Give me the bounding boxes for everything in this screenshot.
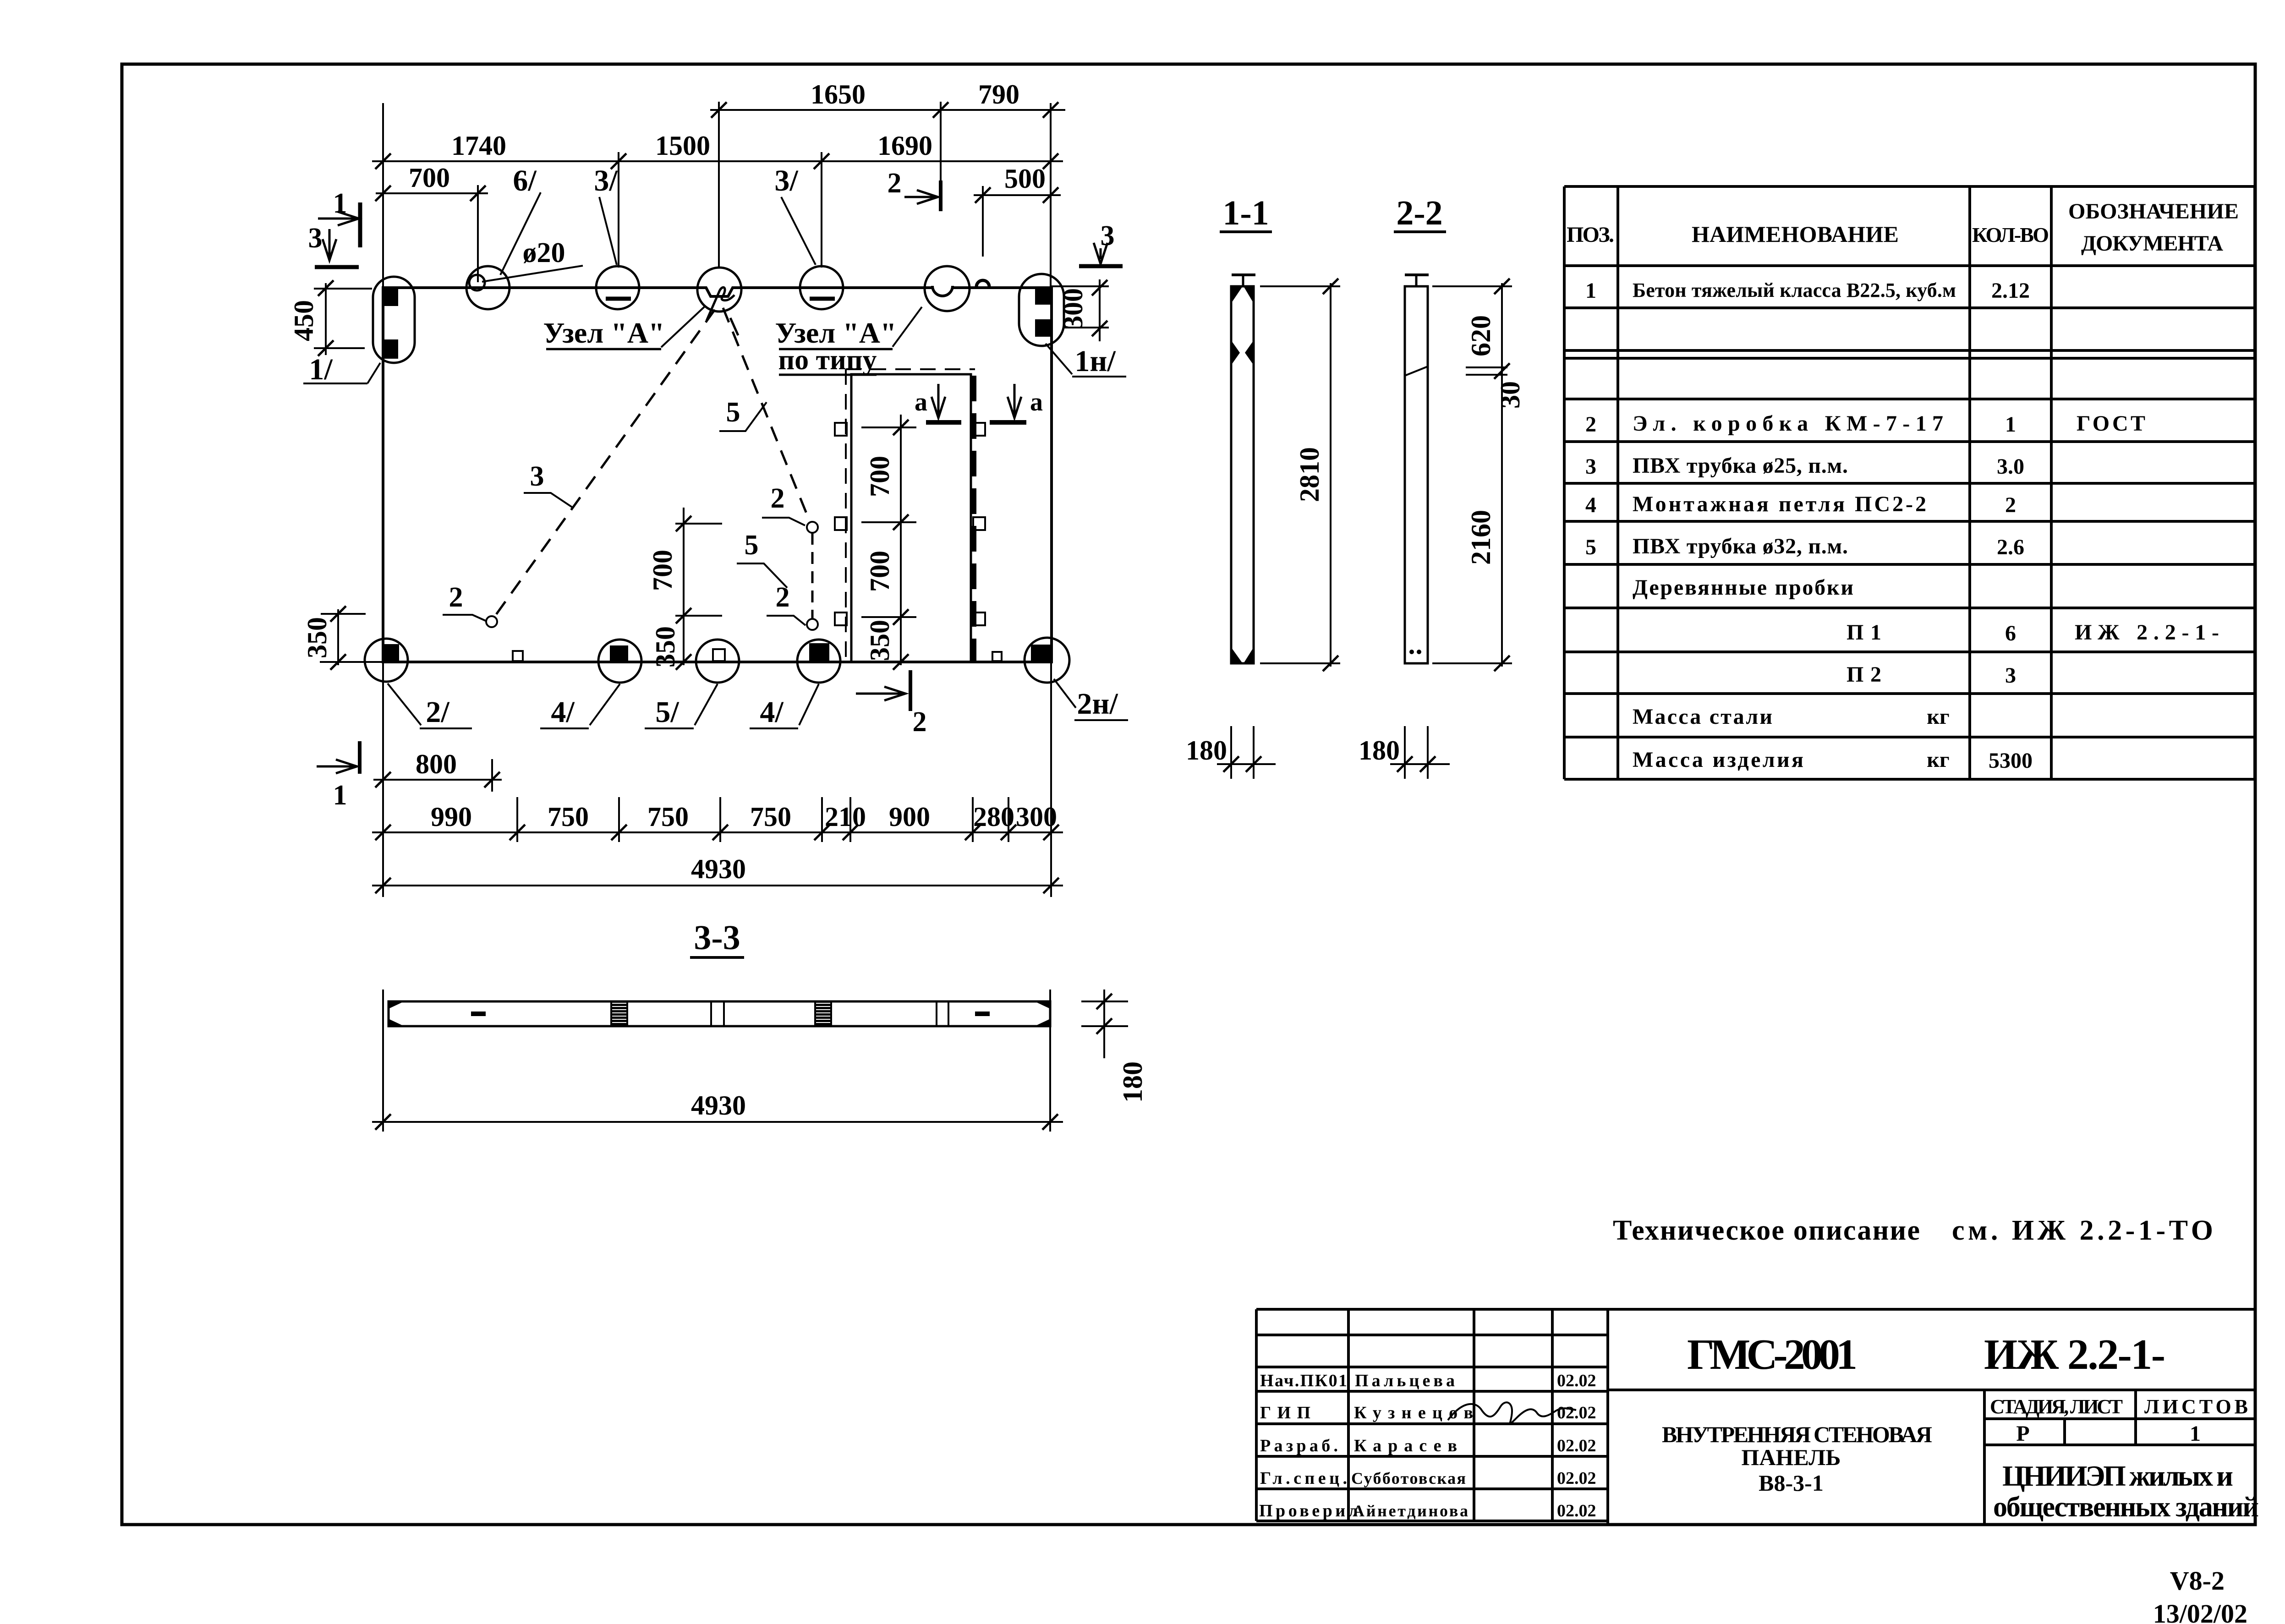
bottom detail circle 4 first bbox=[598, 640, 641, 683]
svg-text:5300: 5300 bbox=[1989, 749, 2033, 773]
svg-text:700: 700 bbox=[865, 551, 895, 592]
svg-text:2: 2 bbox=[888, 168, 902, 199]
left embedded channel detail 1 bbox=[373, 277, 415, 363]
svg-text:2: 2 bbox=[2005, 493, 2016, 517]
svg-text:750: 750 bbox=[548, 802, 589, 832]
svg-text:5: 5 bbox=[745, 530, 759, 561]
svg-text:2н/: 2н/ bbox=[1077, 687, 1118, 721]
svg-text:2: 2 bbox=[449, 582, 463, 613]
section 1-1 column bbox=[1231, 286, 1254, 663]
bottom detail circle 2 left corner bbox=[365, 639, 408, 682]
svg-text:V8-2: V8-2 bbox=[2170, 1566, 2225, 1596]
svg-text:КОЛ-ВО: КОЛ-ВО bbox=[1972, 223, 2049, 246]
bottom dim 800 bbox=[373, 779, 502, 781]
svg-text:ГМС-2001: ГМС-2001 bbox=[1687, 1331, 1858, 1378]
svg-text:Нач.ПК01: Нач.ПК01 bbox=[1260, 1371, 1347, 1390]
svg-text:5: 5 bbox=[1585, 535, 1596, 559]
svg-text:3-3: 3-3 bbox=[694, 919, 740, 957]
svg-text:Р: Р bbox=[2016, 1422, 2029, 1446]
dim 500 top right bbox=[974, 194, 1061, 196]
extension lines top bbox=[382, 103, 384, 288]
svg-text:Айнетдинова: Айнетдинова bbox=[1353, 1502, 1468, 1520]
dashed tube vertical at door bbox=[811, 533, 814, 619]
svg-text:см. ИЖ 2.2-1-ТО: см. ИЖ 2.2-1-ТО bbox=[1952, 1215, 2213, 1246]
svg-text:4930: 4930 bbox=[691, 854, 746, 884]
svg-text:П 2: П 2 bbox=[1847, 662, 1881, 687]
svg-text:350: 350 bbox=[650, 626, 680, 667]
door opening dashed contour bbox=[846, 368, 975, 370]
svg-text:13/02/02: 13/02/02 bbox=[2153, 1599, 2247, 1624]
svg-text:4930: 4930 bbox=[691, 1090, 746, 1121]
svg-text:5/: 5/ bbox=[655, 695, 679, 729]
svg-text:Масса изделия: Масса изделия bbox=[1633, 748, 1803, 772]
svg-text:5: 5 bbox=[726, 397, 740, 428]
svg-text:2/: 2/ bbox=[426, 695, 450, 729]
svg-text:790: 790 bbox=[978, 79, 1019, 109]
svg-text:1650: 1650 bbox=[811, 79, 866, 109]
svg-text:ø20: ø20 bbox=[523, 237, 565, 268]
svg-text:02.02: 02.02 bbox=[1557, 1371, 1596, 1390]
svg-text:02.02: 02.02 bbox=[1557, 1403, 1596, 1422]
svg-text:02.02: 02.02 bbox=[1557, 1469, 1596, 1488]
svg-text:280: 280 bbox=[973, 802, 1014, 832]
3-3 dim 4930 bbox=[382, 990, 384, 1132]
dim 620 bbox=[1501, 283, 1503, 372]
3-3 end chamfers right bbox=[1035, 1001, 1050, 1009]
section marks a-a in door bbox=[937, 384, 940, 416]
svg-text:6/: 6/ bbox=[513, 164, 537, 197]
dim 300 right bbox=[1099, 279, 1101, 341]
small hole bump right of circle bbox=[976, 280, 989, 287]
svg-text:Техническое описание: Техническое описание bbox=[1613, 1215, 1920, 1246]
svg-text:700: 700 bbox=[865, 456, 895, 497]
svg-text:750: 750 bbox=[647, 802, 689, 832]
door opening inner solid contour bbox=[851, 374, 971, 662]
bottom dim chain 990 750 750 750 210 900 280 300 bbox=[372, 831, 1063, 833]
svg-text:1690: 1690 bbox=[877, 131, 932, 161]
svg-text:кг: кг bbox=[1927, 705, 1949, 729]
svg-text:ИЖ 2.2-1-: ИЖ 2.2-1- bbox=[1984, 1331, 2165, 1378]
svg-text:700: 700 bbox=[409, 163, 450, 193]
dim 700 top left bbox=[376, 192, 488, 194]
svg-text:ПАНЕЛЬ: ПАНЕЛЬ bbox=[1742, 1444, 1841, 1470]
svg-text:Монтажная петля ПС2-2: Монтажная петля ПС2-2 bbox=[1633, 492, 1926, 516]
svg-text:4/: 4/ bbox=[551, 695, 575, 729]
svg-text:450: 450 bbox=[289, 300, 319, 341]
detail circle 3 second bbox=[800, 266, 843, 309]
signature squiggle bbox=[1448, 1402, 1576, 1424]
bottom extension lines bbox=[382, 662, 384, 897]
svg-text:ЦНИИЭП жилых и: ЦНИИЭП жилых и bbox=[2002, 1460, 2233, 1492]
door edge tabs bbox=[835, 423, 847, 436]
dim chain 1650 790 bbox=[710, 109, 1065, 111]
right embedded channel detail 1n bbox=[1019, 274, 1064, 346]
small plugs on bottom edge bbox=[513, 651, 523, 661]
svg-text:6: 6 bbox=[2005, 621, 2016, 645]
bottom detail circle 4 second bbox=[797, 640, 840, 683]
svg-text:по типу: по типу bbox=[778, 344, 877, 376]
section 3-3 strip outline bbox=[389, 1001, 1050, 1026]
svg-text:общественных зданий: общественных зданий bbox=[1993, 1492, 2259, 1523]
dim 700 700 350 in door bbox=[900, 415, 902, 665]
svg-text:кг: кг bbox=[1927, 748, 1949, 772]
dim 350 left bottom bbox=[337, 609, 339, 665]
dim 180 under 1-1 bbox=[1230, 726, 1232, 779]
svg-text:350: 350 bbox=[865, 620, 895, 661]
svg-text:2: 2 bbox=[776, 582, 790, 613]
svg-text:Деревянные пробки: Деревянные пробки bbox=[1633, 575, 1853, 600]
svg-text:2160: 2160 bbox=[1466, 510, 1496, 565]
detail circle at section 2 bbox=[925, 266, 970, 311]
svg-text:1740: 1740 bbox=[451, 131, 506, 161]
dim 2810 bbox=[1330, 283, 1332, 667]
bottom detail circle 2n right corner bbox=[1025, 638, 1069, 683]
svg-text:990: 990 bbox=[431, 802, 472, 832]
section 2-2 tube dots bbox=[1409, 650, 1414, 654]
dim chain 1740 1500 1690 bbox=[372, 160, 1063, 162]
panel elevation outline bbox=[383, 288, 1052, 662]
dim 700 350 mid bbox=[683, 508, 685, 665]
svg-text:900: 900 bbox=[889, 802, 930, 832]
svg-text:1н/: 1н/ bbox=[1074, 344, 1116, 378]
svg-text:1: 1 bbox=[1585, 279, 1596, 303]
svg-text:ПВХ трубка ø32, п.м.: ПВХ трубка ø32, п.м. bbox=[1633, 534, 1848, 558]
svg-text:3: 3 bbox=[1101, 220, 1115, 252]
svg-text:ПОЗ.: ПОЗ. bbox=[1567, 223, 1614, 247]
svg-text:210: 210 bbox=[825, 802, 866, 832]
svg-text:750: 750 bbox=[750, 802, 791, 832]
svg-text:3: 3 bbox=[2005, 663, 2016, 688]
3-3 plug dash right bbox=[975, 1012, 990, 1016]
svg-text:2-2: 2-2 bbox=[1396, 194, 1442, 232]
3-3 dim 180 bbox=[1103, 990, 1105, 1058]
bottom detail circle 5 bbox=[696, 640, 739, 683]
detail circle 3 first bbox=[596, 266, 639, 309]
svg-text:700: 700 bbox=[647, 550, 678, 591]
title block grid left bbox=[1256, 1309, 1608, 1521]
section 1-1 embedded marks bbox=[1231, 286, 1243, 303]
svg-text:2.6: 2.6 bbox=[1997, 535, 2024, 559]
parts table grid bbox=[1564, 186, 2255, 779]
svg-text:ГИП: ГИП bbox=[1260, 1403, 1310, 1422]
section 1-1 lifting loop top bbox=[1242, 274, 1244, 286]
svg-text:350: 350 bbox=[302, 617, 332, 658]
detail circle node A bbox=[697, 268, 741, 312]
svg-text:2: 2 bbox=[771, 483, 785, 514]
section 2-2 break line bbox=[1405, 366, 1428, 376]
svg-text:2: 2 bbox=[913, 706, 927, 738]
svg-text:НАИМЕНОВАНИЕ: НАИМЕНОВАНИЕ bbox=[1692, 221, 1899, 247]
svg-text:2.12: 2.12 bbox=[1991, 279, 2030, 303]
svg-text:3.0: 3.0 bbox=[1997, 454, 2024, 479]
svg-text:180: 180 bbox=[1186, 735, 1227, 766]
svg-text:П 1: П 1 bbox=[1847, 620, 1881, 645]
svg-text:2: 2 bbox=[1585, 412, 1596, 437]
dim 30 bbox=[1466, 366, 1507, 368]
svg-text:180: 180 bbox=[1118, 1061, 1148, 1103]
svg-text:620: 620 bbox=[1466, 315, 1496, 356]
svg-text:В8-3-1: В8-3-1 bbox=[1759, 1470, 1824, 1496]
svg-text:ОБОЗНАЧЕНИЕ: ОБОЗНАЧЕНИЕ bbox=[2068, 199, 2239, 224]
dashed tube run to right bbox=[723, 308, 810, 522]
svg-text:1: 1 bbox=[2190, 1422, 2201, 1446]
svg-text:180: 180 bbox=[1359, 735, 1400, 766]
svg-text:500: 500 bbox=[1004, 164, 1046, 194]
svg-text:1: 1 bbox=[2005, 412, 2016, 437]
svg-text:4: 4 bbox=[1585, 493, 1596, 517]
door opening heavy dashed right edge bbox=[970, 376, 976, 662]
svg-text:2810: 2810 bbox=[1294, 447, 1325, 502]
detail circle 6 with hole d20 bbox=[466, 266, 510, 309]
svg-text:а: а bbox=[1030, 388, 1043, 416]
3-3 loop hatch left bbox=[611, 1001, 627, 1026]
svg-text:02.02: 02.02 bbox=[1557, 1436, 1596, 1455]
3-3 plug box mid bbox=[710, 1001, 712, 1026]
dim 450 left bbox=[325, 283, 327, 355]
callout d20 bbox=[482, 266, 583, 282]
svg-text:1/: 1/ bbox=[309, 353, 333, 386]
section 2-2 lifting loop top bbox=[1415, 274, 1418, 286]
dim 180 under 2-2 bbox=[1404, 726, 1406, 779]
svg-text:30: 30 bbox=[1495, 381, 1525, 409]
3-3 box at section 2 bbox=[936, 1001, 937, 1026]
svg-text:1: 1 bbox=[333, 780, 347, 811]
title block grid right bbox=[1608, 1309, 2255, 1525]
svg-text:3: 3 bbox=[308, 223, 323, 254]
bottom dim 4930 bbox=[372, 885, 1063, 886]
dim 2160 bbox=[1501, 372, 1503, 667]
svg-text:Узел "А": Узел "А" bbox=[543, 317, 664, 349]
3-3 loop hatch right bbox=[815, 1001, 831, 1026]
svg-text:а: а bbox=[915, 388, 927, 416]
svg-text:СТАДИЯ, ЛИСТ: СТАДИЯ, ЛИСТ bbox=[1990, 1395, 2123, 1418]
3-3 end chamfers left bbox=[389, 1001, 404, 1009]
svg-text:3/: 3/ bbox=[594, 164, 618, 197]
svg-text:1-1: 1-1 bbox=[1222, 194, 1269, 232]
svg-text:3: 3 bbox=[1585, 454, 1596, 479]
svg-text:4/: 4/ bbox=[760, 695, 784, 729]
svg-text:3/: 3/ bbox=[774, 164, 799, 197]
svg-text:800: 800 bbox=[416, 749, 457, 779]
section 2-2 column bbox=[1405, 286, 1428, 663]
svg-text:ДОКУМЕНТА: ДОКУМЕНТА bbox=[2081, 231, 2223, 256]
svg-text:300: 300 bbox=[1058, 288, 1088, 329]
svg-text:Бетон тяжелый класса В22.5, ку: Бетон тяжелый класса В22.5, куб.м bbox=[1633, 279, 1956, 301]
svg-text:1500: 1500 bbox=[655, 131, 710, 161]
svg-text:3: 3 bbox=[530, 461, 544, 492]
svg-text:ПВХ трубка ø25, п.м.: ПВХ трубка ø25, п.м. bbox=[1633, 454, 1848, 478]
3-3 plug dash left bbox=[471, 1012, 486, 1016]
dashed tube run to left bottom bbox=[494, 310, 715, 618]
svg-text:ВНУТРЕННЯЯ СТЕНОВАЯ: ВНУТРЕННЯЯ СТЕНОВАЯ bbox=[1662, 1422, 1932, 1447]
svg-text:02.02: 02.02 bbox=[1557, 1501, 1596, 1520]
